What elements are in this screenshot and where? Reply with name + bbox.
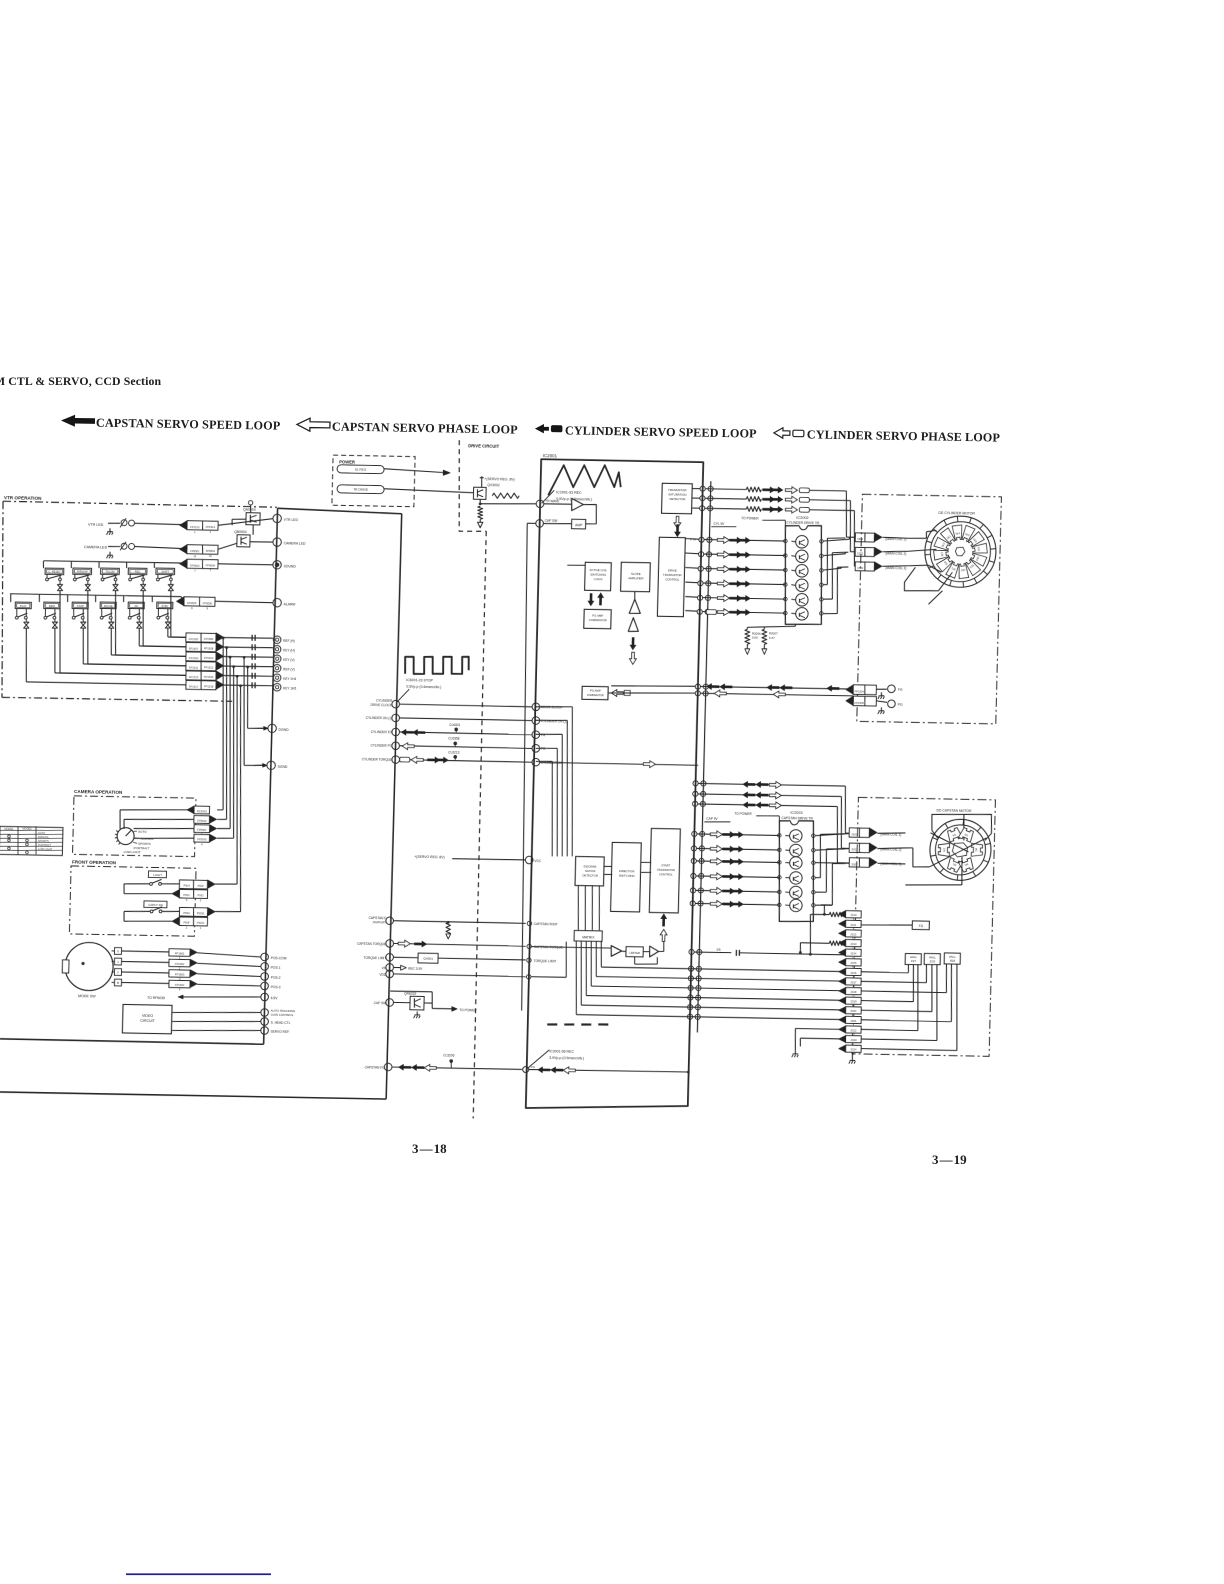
MODE SW tab 2 bbox=[114, 969, 121, 976]
svg-text:TORQUE LIMIT: TORQUE LIMIT bbox=[534, 959, 557, 963]
wire to pin POS-COM bbox=[197, 953, 260, 957]
svg-text:R/RV/SP: R/RV/SP bbox=[77, 570, 88, 574]
wire cap sw to QR6015 bbox=[393, 1001, 410, 1003]
wire QA0804 to QB0904 bbox=[252, 525, 254, 535]
connector FP1517/FP1518 bbox=[186, 680, 216, 689]
wire QB0904 to pin CAMERA LED bbox=[250, 541, 273, 544]
dial wire 1 bbox=[119, 810, 122, 829]
amp triangle after TR WAVE bbox=[544, 503, 572, 506]
pin SERVO REF. bbox=[261, 1027, 269, 1035]
svg-text:FG: FG bbox=[898, 688, 903, 692]
svg-text:AMP: AMP bbox=[575, 523, 583, 527]
hall bias resistor 2 bbox=[800, 942, 829, 945]
matrix bundle wire 6 bbox=[235, 686, 246, 912]
triangle amp after limiter bbox=[649, 946, 658, 957]
cylinder feed row 3 bbox=[700, 506, 705, 511]
svg-text:FP1505: FP1505 bbox=[854, 701, 864, 705]
svg-text:9V: 9V bbox=[828, 903, 832, 907]
svg-text:2CD: 2CD bbox=[930, 959, 936, 963]
transistor QX3002 bbox=[473, 487, 486, 499]
ground FG pickup bbox=[880, 692, 882, 696]
legend arrow: cylinder servo phase loop (outline arrow + outline box) bbox=[774, 428, 790, 439]
diode under REW bbox=[54, 619, 56, 622]
VTR OPERATION dashed border bbox=[3, 501, 277, 507]
cylinder drive row 1 bbox=[699, 537, 704, 542]
connector FP2020 bbox=[846, 1007, 862, 1014]
diode under STBY bbox=[167, 619, 169, 622]
connector FP2022 bbox=[845, 1026, 861, 1033]
pin KEY 1H4 bbox=[273, 674, 281, 682]
drive transistor Q5 in IC2002 bbox=[796, 593, 809, 606]
svg-text:STBY: STBY bbox=[161, 604, 168, 608]
label box CAP/LT SW bbox=[144, 901, 167, 908]
matrix bundle wire 4 bbox=[229, 667, 237, 838]
svg-text:TR DRIVE: TR DRIVE bbox=[353, 488, 368, 492]
HALL 2CD box bbox=[924, 953, 940, 964]
stack return wire 13 bbox=[795, 1027, 842, 1030]
svg-text:POWER: POWER bbox=[339, 459, 355, 464]
svg-text:TO POWER: TO POWER bbox=[741, 516, 759, 520]
PG pickup bbox=[876, 701, 887, 702]
svg-text:SGND: SGND bbox=[278, 765, 288, 769]
svg-text:6.5V: 6.5V bbox=[271, 996, 279, 1000]
long vertical wire left of IC2001 bbox=[515, 523, 534, 1010]
svg-text:TAL/JM: TAL/JM bbox=[105, 570, 115, 574]
svg-text:2024: 2024 bbox=[850, 1048, 857, 1052]
capstan drive row 2 bbox=[691, 846, 696, 851]
switch SHIFT bbox=[153, 563, 155, 568]
connector FP1501 cylinder coil bbox=[855, 533, 874, 542]
wire CYLINDER FG to IC2001 bbox=[400, 732, 533, 735]
wire from 6L REG with arrow bbox=[384, 469, 443, 473]
svg-text:FP1513: FP1513 bbox=[190, 525, 200, 529]
switch C. RESET bbox=[42, 561, 44, 568]
HALL 1ST box bbox=[905, 953, 921, 964]
limiter feedback wire bbox=[633, 957, 635, 965]
drive transistor Q1 in IC2003 bbox=[789, 830, 802, 843]
svg-text:PORTRAIT: PORTRAIT bbox=[38, 843, 52, 847]
wire main coil 3 to motor bbox=[882, 565, 908, 566]
connector FP2002 capstan coil bbox=[849, 843, 869, 853]
connector P502/P503 bbox=[179, 907, 207, 916]
wire video circuit 2 bbox=[172, 1020, 260, 1023]
hall lead wire from connector 10 bbox=[861, 1001, 913, 1002]
resistor R2006 0.65 bbox=[745, 629, 750, 644]
svg-text:M CTL & SERVO, CCD Section: M CTL & SERVO, CCD Section bbox=[0, 374, 161, 388]
svg-text:P604: P604 bbox=[183, 884, 190, 888]
leader to drive clock pin bbox=[397, 689, 410, 703]
label TORQUE LIMIT at IC2001 bbox=[527, 958, 532, 962]
svg-text:FP1508: FP1508 bbox=[204, 646, 214, 650]
ground below R2007 bbox=[763, 644, 765, 649]
matrix fan wire 2 bbox=[595, 941, 597, 977]
arrows detector to drive control bbox=[674, 516, 681, 528]
pin TORQUE LIMIT bbox=[386, 953, 394, 961]
triangle amp under slope amplifier bbox=[629, 599, 640, 613]
svg-text:FP9505: FP9505 bbox=[187, 601, 197, 605]
drive transistor Q2 in IC2003 bbox=[790, 844, 803, 857]
diode under SHIFT bbox=[170, 581, 172, 584]
svg-text:DD CAPSTAN MOTOR: DD CAPSTAN MOTOR bbox=[936, 808, 972, 813]
svg-text:M1: M1 bbox=[942, 847, 946, 851]
svg-text:PAUSE: PAUSE bbox=[104, 604, 113, 608]
svg-text:FP1510: FP1510 bbox=[204, 656, 214, 660]
cylinder motor bottom diagonal bbox=[928, 591, 942, 605]
drive transistor Q2 in IC2002 bbox=[795, 550, 808, 563]
power pill 6L REG bbox=[337, 465, 384, 474]
switch TAL/JM bbox=[98, 562, 100, 568]
ground for CAMERA LED bbox=[109, 552, 111, 556]
svg-text:DRIVE CLOCK: DRIVE CLOCK bbox=[371, 703, 394, 707]
svg-text:3.0Vp-p (0.5msec/div.): 3.0Vp-p (0.5msec/div.) bbox=[549, 1056, 584, 1061]
wire SHIFT to matrix row bbox=[170, 591, 172, 637]
hall lead wire from connector 7 bbox=[861, 971, 908, 974]
wire QR6015 to power bbox=[424, 1002, 432, 1004]
dial wire 4 bbox=[134, 837, 194, 839]
connector FP9505/FP9506 bbox=[184, 597, 215, 607]
hall lead wire from connector 9 bbox=[861, 991, 946, 993]
pin DRIVE CLOCK on IC2001 bbox=[532, 703, 540, 711]
wire PAUSE to matrix row bbox=[111, 628, 112, 655]
drive transistor Q3 in IC2003 bbox=[790, 857, 803, 870]
pin CYLINDER ON (1) on IC2001 bbox=[532, 717, 540, 725]
connector FP1603 bbox=[122, 971, 170, 974]
FG pickup bbox=[876, 688, 887, 690]
svg-text:SWITCHING: SWITCHING bbox=[619, 874, 635, 878]
diode under TAL/JM bbox=[115, 581, 117, 584]
pin CAPSTAN TORQUE bbox=[386, 940, 394, 948]
IC2001 internal route 5 bbox=[536, 706, 572, 707]
FG amp box bbox=[912, 921, 929, 930]
connector FP2019 bbox=[845, 997, 861, 1004]
hall lead wire from connector 13 bbox=[861, 1029, 918, 1030]
svg-text:POS-1: POS-1 bbox=[271, 966, 281, 970]
wire to start control arrows bbox=[659, 950, 664, 952]
cylinder motor lead 3 bbox=[908, 565, 928, 566]
resistor R2007 0.47 bbox=[762, 629, 767, 644]
wire main coil 1 to motor bbox=[882, 536, 908, 539]
wire TAL/JM to matrix row bbox=[114, 591, 117, 655]
svg-text:P501: P501 bbox=[183, 893, 190, 897]
diode under C. RESET bbox=[59, 581, 61, 584]
pin DGND bbox=[255, 727, 265, 729]
svg-text:KEY 1H5: KEY 1H5 bbox=[283, 686, 296, 690]
capstan motor bottom lead bbox=[961, 857, 962, 885]
pin CYLINDER FG bbox=[392, 728, 400, 736]
switch REW bbox=[38, 594, 40, 602]
connector FP2021 bbox=[846, 1016, 862, 1023]
syscon IC left edge bbox=[264, 508, 278, 1044]
diode under PLAY bbox=[25, 619, 27, 622]
capstan drive row 1 bbox=[692, 831, 697, 836]
svg-text:CYLINDER FG: CYLINDER FG bbox=[371, 730, 393, 734]
connector FP2024 bbox=[846, 1045, 862, 1052]
connector FP1503 cylinder coil bbox=[855, 562, 874, 571]
svg-text:FP1603: FP1603 bbox=[175, 972, 185, 976]
ground below stack bbox=[851, 1057, 853, 1061]
stop waveform square wave bbox=[405, 656, 469, 675]
mode table bbox=[0, 826, 63, 855]
ground for VTR LED bbox=[109, 528, 111, 532]
svg-text:1501: 1501 bbox=[857, 537, 864, 541]
leader IC2001-56 bbox=[527, 1050, 549, 1069]
svg-text:QX3002: QX3002 bbox=[487, 483, 500, 487]
cylinder drive row 5 bbox=[697, 595, 702, 600]
svg-text:DRIVE CIRCUIT: DRIVE CIRCUIT bbox=[468, 443, 500, 449]
pin TR WAVE bbox=[536, 500, 544, 508]
svg-text:IC2003: IC2003 bbox=[790, 811, 802, 815]
cylinder motor stator rings bbox=[924, 516, 997, 588]
svg-text:FP1602: FP1602 bbox=[175, 962, 185, 966]
pin ALARM bbox=[273, 598, 282, 607]
svg-text:FP1509: FP1509 bbox=[189, 656, 199, 660]
wire to pin POS-2 bbox=[197, 974, 260, 977]
svg-text:FP5000: FP5000 bbox=[197, 837, 207, 841]
wire capstan fg bbox=[392, 1067, 522, 1070]
triangle amp after matrix bbox=[611, 946, 622, 957]
wire connector to pin ALARM bbox=[215, 601, 273, 602]
svg-text:CAPSTAN DRIVE TR: CAPSTAN DRIVE TR bbox=[781, 816, 813, 821]
wire VDD inside IC2001 bbox=[531, 976, 566, 979]
hall lead wire from connector 12 bbox=[861, 1020, 951, 1022]
svg-text:2019: 2019 bbox=[850, 999, 857, 1003]
svg-text:KEY (H): KEY (H) bbox=[283, 648, 295, 652]
DRIVE TRANSISTOR CONTROL box bbox=[657, 537, 685, 616]
svg-text:FP1601: FP1601 bbox=[175, 951, 185, 955]
svg-text:2012: 2012 bbox=[850, 932, 857, 936]
svg-text:FP1504: FP1504 bbox=[854, 690, 864, 694]
svg-text:QB0904: QB0904 bbox=[234, 530, 247, 534]
bank2 common wire bbox=[10, 593, 181, 596]
svg-text:REC: REC bbox=[135, 570, 141, 574]
svg-text:CAMERA LED: CAMERA LED bbox=[284, 541, 307, 545]
wire STBY to matrix row bbox=[167, 628, 169, 637]
dial wire 2 bbox=[123, 819, 126, 829]
svg-text:C. RESET: C. RESET bbox=[48, 570, 61, 574]
wire capstan torque bbox=[393, 943, 525, 946]
pin KEY (V) bbox=[273, 655, 281, 663]
connector FP2013 bbox=[846, 939, 862, 946]
svg-text:W3: W3 bbox=[940, 552, 945, 557]
svg-text:FP1506: FP1506 bbox=[204, 637, 214, 641]
wire CAMERA LED to connector bbox=[108, 545, 120, 547]
svg-text:REC 3.9V: REC 3.9V bbox=[408, 967, 423, 971]
svg-text:2001: 2001 bbox=[851, 832, 858, 836]
pin CYLINDER ON (1) bbox=[392, 714, 400, 722]
capstan motor lead return bbox=[912, 848, 929, 867]
svg-text:2011: 2011 bbox=[851, 923, 857, 927]
wire capstan fg inside IC2001 bbox=[529, 1069, 689, 1072]
svg-text:FP1512: FP1512 bbox=[204, 665, 214, 669]
pin SGND bbox=[254, 764, 264, 766]
IC2002 collector wire 3 bbox=[823, 568, 841, 571]
cylinder feed row 1 bbox=[700, 486, 705, 491]
pin PG on IC2001 bbox=[532, 744, 540, 752]
svg-text:POS-2: POS-2 bbox=[271, 976, 281, 980]
svg-text:MODE1: MODE1 bbox=[4, 827, 14, 831]
capstan motor shield bbox=[931, 813, 991, 833]
pin CYLINDER PG bbox=[392, 742, 400, 750]
svg-text:P60F: P60F bbox=[197, 884, 204, 888]
matrix bundle wire 8 bbox=[246, 667, 249, 728]
svg-text:W2: W2 bbox=[960, 568, 965, 573]
svg-text:CYLINDER ON (1): CYLINDER ON (1) bbox=[541, 719, 568, 723]
svg-text:FP9501: FP9501 bbox=[190, 549, 200, 553]
matrix bundle wire 2 bbox=[222, 648, 230, 820]
diode under REC bbox=[142, 581, 144, 584]
connector FP5001 bbox=[194, 825, 210, 833]
wire CYLINDER SW to bus bbox=[540, 762, 699, 765]
legend arrow: capstan servo speed loop (filled) bbox=[61, 415, 95, 428]
matrix fan wire 5 bbox=[580, 941, 583, 1005]
wire 6.5V bbox=[178, 995, 260, 998]
IC2001 internal route 2 bbox=[536, 747, 557, 750]
svg-text:0.5Vp-p (0.6msec/div.): 0.5Vp-p (0.6msec/div.) bbox=[406, 685, 441, 690]
cylinder motor lead 2 bbox=[908, 549, 936, 552]
svg-text:VS: VS bbox=[716, 948, 720, 952]
svg-text:CYLINDER TORQUE: CYLINDER TORQUE bbox=[362, 757, 393, 762]
pin CAP SW syscon bbox=[386, 999, 394, 1007]
bank1 common wire bbox=[43, 560, 184, 563]
svg-text:SERVO REF.: SERVO REF. bbox=[271, 1030, 290, 1034]
svg-text:B: B bbox=[117, 981, 119, 985]
pin CYLINDER TORQUE bbox=[392, 756, 400, 764]
connector FP1507/FP1508 bbox=[186, 642, 216, 651]
svg-text:CIRCUIT: CIRCUIT bbox=[140, 1019, 155, 1023]
cylinder motor lead 1 bbox=[908, 537, 926, 540]
svg-text:FRONT OPERATION: FRONT OPERATION bbox=[72, 859, 117, 865]
MODE SW tab B bbox=[114, 979, 121, 986]
svg-text:CL5206: CL5206 bbox=[443, 1053, 454, 1057]
IC2003 collector wire 4 bbox=[815, 877, 820, 879]
svg-text:CL6358: CL6358 bbox=[448, 736, 459, 740]
wire capstan coil 2 lead bbox=[877, 847, 905, 849]
svg-text:P5001: P5001 bbox=[197, 921, 205, 925]
pin VDD bbox=[386, 970, 394, 978]
power terminal above QA0804 bbox=[248, 501, 253, 505]
svg-text:QX501: QX501 bbox=[423, 957, 433, 961]
wire VTR LED to connector bbox=[108, 522, 120, 524]
connector FP1502 cylinder coil bbox=[855, 547, 874, 556]
svg-text:VTR OPERATION: VTR OPERATION bbox=[4, 495, 42, 501]
sawtooth waveform IC2001-53 bbox=[548, 464, 621, 496]
svg-text:AUTO: AUTO bbox=[38, 831, 45, 835]
matrix fan wire 4 bbox=[585, 941, 588, 996]
ground stack return bbox=[794, 1050, 796, 1054]
switch PAUSE bbox=[94, 596, 96, 603]
wire to pin KEY (H) bbox=[224, 647, 273, 648]
footer blue rule bbox=[126, 1573, 271, 1575]
svg-text:F W: F W bbox=[690, 537, 696, 541]
IC2002 collector wire 4 bbox=[823, 583, 827, 585]
connector FP1505/FP1506 bbox=[186, 633, 216, 642]
wire stack to FG box bbox=[861, 924, 912, 926]
LED VTR indicator bbox=[121, 520, 127, 526]
svg-text:CL6213: CL6213 bbox=[448, 750, 459, 754]
limiter box QX501 bbox=[418, 953, 438, 963]
capstan hall row 6 bbox=[687, 1014, 692, 1019]
cylinder motor hub bbox=[955, 547, 965, 556]
svg-text:TO POWER: TO POWER bbox=[734, 812, 752, 816]
svg-text:2010: 2010 bbox=[850, 913, 857, 917]
connector FP2015 bbox=[846, 959, 862, 966]
ACTIVE COIL SWITCHING LOGIC box bbox=[585, 562, 612, 590]
IC2003 collector wire 2 bbox=[815, 848, 849, 851]
ground PG pickup bbox=[880, 707, 882, 711]
bus wire right of IC2001 bbox=[697, 481, 711, 1032]
svg-text:FG: FG bbox=[541, 733, 546, 737]
svg-text:IC2001: IC2001 bbox=[543, 453, 558, 458]
hall bias resistor 1 bbox=[810, 913, 829, 916]
FRONT OPERATION dashed box bbox=[69, 866, 196, 936]
drive transistor Q5 in IC2003 bbox=[789, 886, 802, 899]
pin AUTO TRACKING GAIN CONTROL bbox=[261, 1009, 269, 1017]
leader to TR WAVE pin bbox=[542, 490, 555, 503]
svg-text:VCC: VCC bbox=[534, 859, 542, 863]
svg-text:(S)/(R)/(F): (S)/(R)/(F) bbox=[372, 920, 386, 924]
pin POS-1 bbox=[261, 963, 269, 971]
matrix fan wire 6 bbox=[574, 941, 578, 1015]
junction FG on IC2001 edge bbox=[523, 1066, 529, 1072]
drive circuit dashed boundary bbox=[457, 440, 488, 532]
svg-text:AMPLIFIER: AMPLIFIER bbox=[628, 576, 643, 580]
pin VTR LED bbox=[273, 514, 282, 523]
PG AMP COMPARATOR box bbox=[582, 686, 608, 699]
svg-text:STOP: STOP bbox=[77, 604, 85, 608]
svg-text:KEY (V): KEY (V) bbox=[283, 658, 295, 662]
switch R/RV/SP bbox=[70, 561, 72, 568]
9V tick bbox=[823, 905, 826, 914]
svg-text:CL6001: CL6001 bbox=[449, 723, 460, 727]
capstan motor rings bbox=[929, 819, 992, 881]
svg-text:VR: VR bbox=[382, 966, 387, 970]
wire PLAY to matrix row bbox=[25, 628, 28, 682]
matrix bundle wire 3 bbox=[226, 657, 235, 828]
switch PLAY bbox=[10, 594, 12, 602]
wire to pin KEY 1H5 bbox=[224, 685, 273, 686]
wire CAP SW to long drop bbox=[527, 522, 536, 524]
IC2002 collector wire 2 bbox=[823, 553, 845, 556]
connector FP2010 bbox=[846, 911, 862, 918]
mode dial bbox=[117, 827, 134, 844]
pin CYLINDER bbox=[392, 700, 400, 708]
svg-text:FP1505: FP1505 bbox=[189, 637, 199, 641]
pin KEY 1H5 bbox=[273, 683, 281, 691]
IC2003 collector wire 1 bbox=[815, 833, 849, 836]
pin POS-2 bbox=[261, 973, 269, 981]
connector FP1505 cylinder PG bbox=[853, 696, 876, 706]
svg-text:P501: P501 bbox=[197, 893, 204, 897]
svg-text:IC2002: IC2002 bbox=[796, 516, 808, 520]
pin KEY (H) bbox=[273, 645, 281, 653]
connector FP1509/FP1510 bbox=[186, 652, 216, 661]
svg-text:FP1604: FP1604 bbox=[175, 983, 185, 987]
svg-text:POS-3: POS-3 bbox=[271, 985, 281, 989]
wire to pin POS-3 bbox=[197, 984, 260, 986]
dial wire 3 bbox=[134, 827, 195, 829]
connector FP2011 bbox=[845, 920, 861, 927]
svg-text:MODE2: MODE2 bbox=[22, 827, 32, 831]
wires direction to start control bbox=[641, 861, 651, 863]
svg-text:IC2001-53 REC: IC2001-53 REC bbox=[556, 490, 582, 494]
hall lead wire from connector 14 bbox=[861, 1039, 937, 1041]
svg-text:SWITCHING: SWITCHING bbox=[590, 573, 606, 577]
svg-text:VDD: VDD bbox=[379, 973, 387, 977]
svg-text:VTR LED: VTR LED bbox=[88, 523, 104, 527]
left section bottom rail bbox=[0, 1039, 264, 1044]
wire REC to matrix row bbox=[142, 591, 145, 646]
stack return wire 14 bbox=[800, 1037, 842, 1040]
